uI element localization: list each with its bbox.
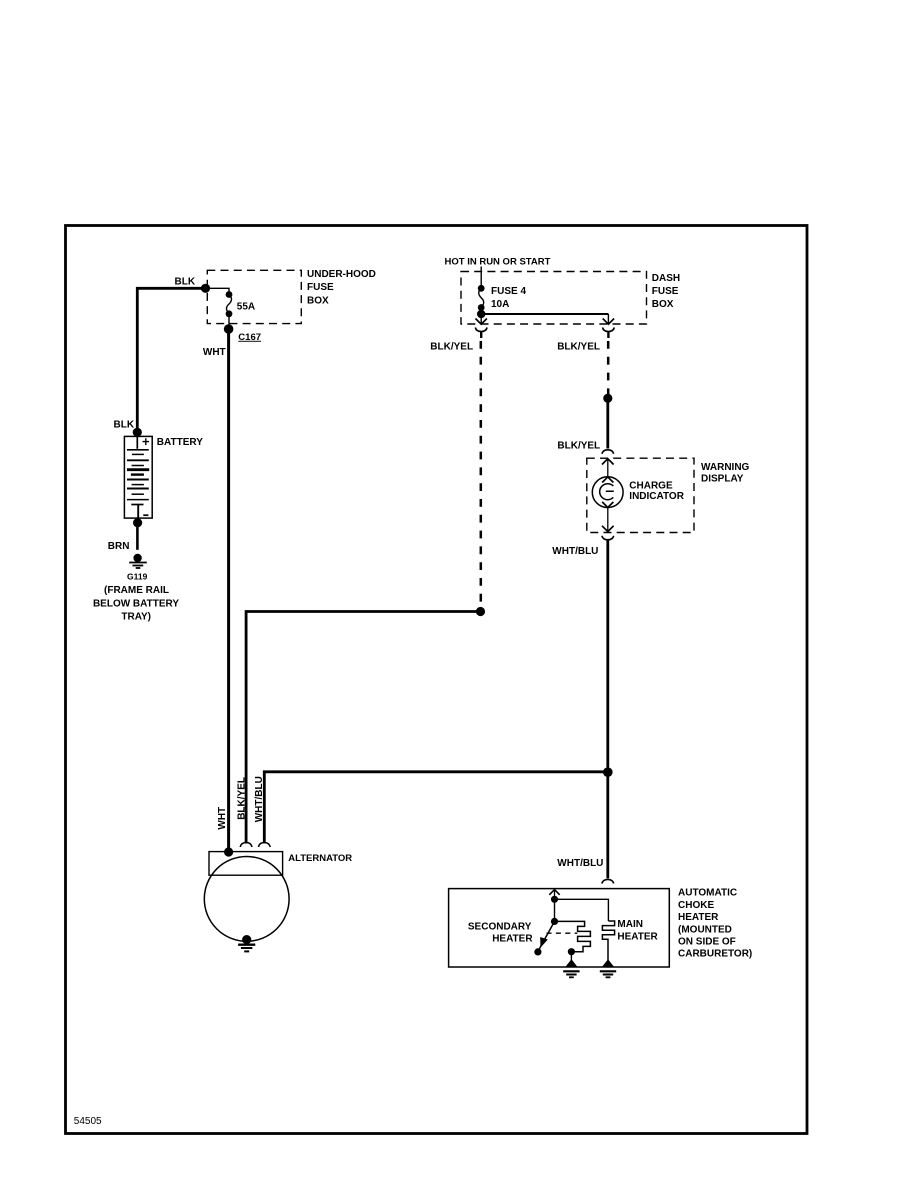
svg-text:WHT/BLU: WHT/BLU (552, 546, 598, 557)
node junction at fuse box (201, 284, 210, 293)
svg-text:DASH: DASH (652, 273, 680, 284)
node battery negative (133, 518, 142, 527)
main heater ground (600, 960, 616, 977)
connector below left (475, 328, 487, 332)
svg-text:INDICATOR: INDICATOR (629, 491, 684, 502)
svg-text:HEATER: HEATER (617, 931, 658, 942)
automatic choke heater box (449, 889, 670, 967)
svg-text:WHT/BLU: WHT/BLU (557, 858, 603, 869)
svg-text:BATTERY: BATTERY (157, 437, 203, 448)
svg-text:(MOUNTED: (MOUNTED (678, 924, 732, 935)
node switch end (534, 948, 541, 955)
wire to main heater (555, 899, 609, 921)
svg-text:ON SIDE OF: ON SIDE OF (678, 937, 736, 948)
wire into fuse 4 (480, 267, 482, 289)
alternator circle (204, 857, 289, 942)
wire WHT/BLU down (606, 540, 609, 772)
svg-text:BELOW BATTERY: BELOW BATTERY (93, 598, 179, 609)
connector below display (602, 536, 614, 540)
connector above choke heater (602, 880, 614, 884)
wire WHT/BLU horizontal (264, 772, 608, 844)
svg-text:ALTERNATOR: ALTERNATOR (288, 853, 352, 864)
wire BLK/YEL dashed right (607, 341, 610, 394)
wire BLK/YEL solid to display (606, 398, 609, 448)
svg-text:10A: 10A (491, 299, 509, 310)
svg-text:WHT: WHT (203, 347, 226, 358)
svg-text:FUSE: FUSE (652, 286, 679, 297)
svg-text:BLK/YEL: BLK/YEL (430, 341, 473, 352)
svg-text:BLK/YEL: BLK/YEL (557, 440, 600, 451)
svg-text:54505: 54505 (74, 1116, 102, 1127)
node junction left (476, 607, 485, 616)
svg-text:55A: 55A (237, 302, 255, 313)
wire to fuse 55A (206, 288, 230, 294)
connector C167 junction (224, 324, 234, 334)
node below fuse 4 (477, 310, 485, 318)
svg-text:HEATER: HEATER (678, 912, 719, 923)
node secondary heater out (568, 948, 575, 955)
svg-text:BLK: BLK (175, 277, 196, 288)
warning display box (587, 458, 694, 532)
svg-text:SECONDARY: SECONDARY (468, 921, 532, 932)
svg-text:CARBURETOR): CARBURETOR) (678, 949, 752, 960)
arrow into display (607, 460, 609, 477)
svg-text:C167: C167 (238, 332, 261, 343)
battery (124, 436, 152, 518)
wire fuse to C167 (228, 314, 230, 329)
secondary heater element (555, 921, 591, 951)
svg-text:AUTOMATIC: AUTOMATIC (678, 888, 737, 899)
wire to switch (554, 899, 556, 921)
wire WHT down to alternator (227, 329, 230, 852)
svg-text:BOX: BOX (307, 296, 329, 307)
node junction WHT/BLU (603, 767, 613, 777)
svg-text:HEATER: HEATER (492, 933, 533, 944)
wire BLK/YEL dashed left (480, 341, 483, 606)
main heater element (602, 921, 614, 963)
switch blade (538, 921, 555, 951)
arrow out right (607, 314, 609, 323)
fuse 4 (478, 285, 485, 292)
node choke heater top (551, 896, 558, 903)
ground G119 (129, 554, 147, 568)
dash fuse box (461, 272, 647, 325)
alternator ground (238, 935, 255, 951)
svg-text:TRAY): TRAY) (121, 612, 151, 623)
svg-text:WHT: WHT (217, 807, 228, 830)
svg-text:FUSE 4: FUSE 4 (491, 286, 526, 297)
svg-text:FUSE: FUSE (307, 282, 334, 293)
node switch pivot (551, 918, 558, 925)
wire WHT/BLU to choke heater (606, 772, 609, 878)
connector below right (603, 328, 615, 332)
wire BRN (136, 523, 139, 550)
node junction right (603, 394, 612, 403)
svg-text:DISPLAY: DISPLAY (701, 474, 744, 485)
fuse 55A (226, 291, 233, 298)
svg-text:WHT/BLU: WHT/BLU (254, 776, 265, 822)
wire BLK battery-to-fusebox (137, 288, 205, 433)
battery plus sign (143, 438, 150, 445)
svg-text:WARNING: WARNING (701, 462, 750, 473)
svg-text:HOT IN RUN OR START: HOT IN RUN OR START (445, 256, 551, 267)
arrow into choke heater (554, 890, 556, 899)
charge indicator lamp (592, 477, 623, 508)
node battery positive (133, 428, 142, 437)
under-hood fuse box (207, 270, 301, 323)
svg-text:UNDER-HOOD: UNDER-HOOD (307, 269, 376, 280)
svg-text:BOX: BOX (652, 299, 674, 310)
wire BLK/YEL to alternator (246, 612, 480, 844)
arrow out left (480, 314, 482, 323)
switch linkage dashes (547, 932, 578, 934)
connector WHT/BLU at alternator (258, 843, 270, 848)
svg-text:BRN: BRN (108, 541, 130, 552)
svg-text:BLK/YEL: BLK/YEL (236, 777, 247, 820)
connector BLK/YEL at alternator (240, 843, 252, 848)
svg-text:(FRAME RAIL: (FRAME RAIL (104, 585, 169, 596)
wire across dash fuse box (481, 313, 608, 315)
svg-text:CHOKE: CHOKE (678, 900, 714, 911)
secondary heater ground (563, 960, 579, 977)
node WHT at alternator (224, 847, 233, 856)
border frame (66, 226, 808, 1134)
connector above warning display (602, 450, 614, 454)
alternator box (209, 852, 283, 876)
arrow out of display (607, 508, 609, 531)
svg-text:BLK/YEL: BLK/YEL (557, 341, 600, 352)
svg-text:BLK: BLK (114, 420, 135, 431)
wire to ground (570, 952, 572, 963)
svg-text:G119: G119 (127, 571, 148, 581)
svg-text:MAIN: MAIN (617, 919, 643, 930)
